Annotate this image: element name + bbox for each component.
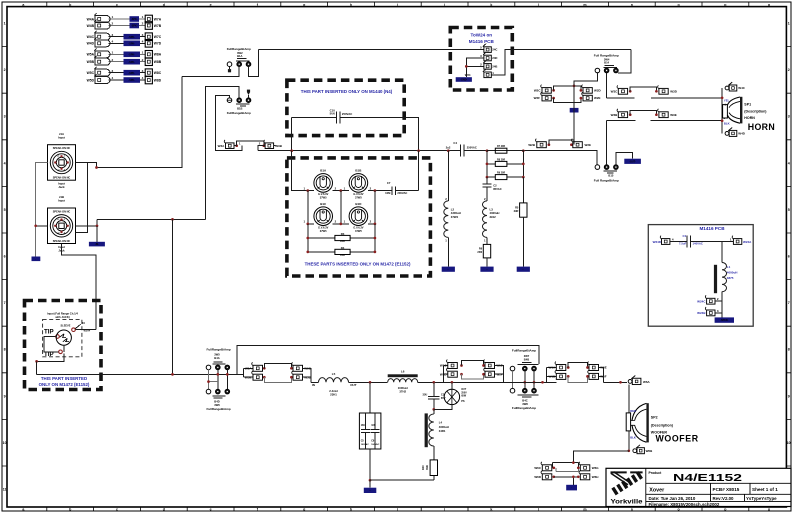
svg-text:W6D: W6D	[534, 475, 542, 479]
lamp B1A	[314, 174, 333, 193]
svg-text:HORN: HORN	[744, 116, 755, 120]
capacitor C1	[687, 236, 691, 248]
svg-text:ToW24 on: ToW24 on	[470, 33, 492, 38]
svg-text:2: 2	[142, 22, 144, 26]
svg-text:C1: C1	[682, 234, 686, 238]
svg-text:1: 1	[142, 15, 144, 19]
dashed box ToW24 on M1416 PCB	[450, 28, 512, 91]
svg-text:R8 20R: R8 20R	[497, 158, 505, 161]
switch S3 pin open	[595, 68, 600, 73]
svg-text:W4D: W4D	[738, 132, 746, 136]
svg-text:j: j	[443, 3, 445, 7]
capacitor C2 branch	[486, 177, 488, 184]
svg-text:l: l	[538, 3, 539, 7]
wire riser to jack line	[172, 219, 174, 374]
svg-text:c: c	[116, 3, 118, 7]
wire tip wiring	[44, 337, 59, 352]
svg-text:SP1: SP1	[744, 103, 751, 107]
svg-text:22R: 22R	[340, 254, 345, 257]
svg-text:16U: 16U	[361, 424, 366, 427]
svg-text:W6B: W6B	[646, 449, 654, 453]
junction W3B	[262, 144, 265, 147]
net label woofer gnd	[369, 480, 371, 488]
wire row link mid	[340, 191, 342, 224]
wire speakon2 left	[36, 225, 48, 227]
svg-text:M1416 PCB: M1416 PCB	[699, 226, 725, 231]
svg-text:R9 20R: R9 20R	[497, 172, 505, 175]
svg-text:200VAC: 200VAC	[397, 191, 407, 195]
svg-text:·SPK·: ·SPK·	[128, 53, 135, 56]
svg-text:7: 7	[788, 301, 790, 305]
svg-text:FullRangeBiAmp: FullRangeBiAmp	[227, 47, 251, 51]
wire speakon2 right	[76, 219, 98, 225]
wire S2 middle to left riser	[205, 86, 239, 219]
wire woofer main line	[37, 373, 244, 375]
svg-text:9: 9	[788, 394, 790, 398]
svg-text:q: q	[768, 508, 770, 512]
svg-text:W2C: W2C	[534, 89, 542, 93]
svg-text:M1416 PCB: M1416 PCB	[469, 39, 495, 44]
wire W1A bridge top	[568, 363, 587, 368]
inductor L6	[388, 379, 418, 383]
svg-text:4: 4	[142, 39, 144, 43]
wire resistor bank right	[522, 151, 524, 177]
svg-text:37W5: 37W5	[320, 196, 327, 200]
svg-text:W24B: W24B	[697, 311, 706, 315]
svg-text:W8B: W8B	[154, 60, 162, 64]
svg-text:L6: L6	[401, 369, 405, 373]
junctions W1C W1D	[460, 364, 463, 367]
net label W4A	[130, 16, 140, 22]
svg-text:W8D: W8D	[154, 78, 162, 82]
svg-text:34R1: 34R1	[439, 429, 446, 433]
svg-text:FullRangeBiAmp: FullRangeBiAmp	[512, 406, 536, 410]
wire long bus y49.6 left	[259, 49, 451, 51]
svg-text:3: 3	[142, 33, 144, 37]
svg-text:W3D: W3D	[670, 90, 678, 94]
svg-text:n: n	[631, 3, 633, 7]
svg-text:HORN: HORN	[748, 122, 776, 132]
jack sleeve pin	[72, 328, 76, 332]
connector W4C horn top	[725, 82, 737, 91]
wire long net y219.4	[97, 218, 205, 220]
svg-text:e: e	[210, 3, 212, 7]
svg-text:10: 10	[787, 441, 791, 445]
svg-text:1: 1	[142, 50, 144, 54]
svg-text:W6C: W6C	[534, 466, 542, 470]
wire S1 left leg	[182, 67, 239, 77]
connector W5D	[87, 74, 110, 83]
wire W4C-W7C	[109, 36, 146, 38]
svg-text:Product: Product	[649, 471, 663, 475]
net label W4C	[124, 34, 141, 40]
svg-text:Date: Tue Jan 26, 2010: Date: Tue Jan 26, 2010	[649, 496, 696, 501]
wire riser x574	[573, 81, 575, 140]
connector W8D	[145, 76, 162, 84]
capacitor C6	[374, 413, 376, 449]
resistor R3	[308, 224, 375, 252]
svg-text:4: 4	[112, 76, 114, 80]
wire woofer -	[628, 431, 630, 451]
svg-text:Jack: Jack	[58, 185, 65, 189]
svg-text:Input: Input	[58, 199, 65, 203]
junction W3D	[655, 90, 658, 93]
svg-text:YsTypeYsType: YsTypeYsType	[746, 496, 777, 501]
connector W7B	[145, 22, 162, 30]
svg-text:B1A: B1A	[320, 169, 327, 173]
inductor L1	[714, 265, 717, 293]
svg-text:W8C: W8C	[154, 71, 162, 75]
junction W3C	[629, 90, 632, 93]
net label speakon2	[96, 226, 98, 242]
wire rail W3B left	[607, 120, 636, 122]
inductor L4 core	[425, 413, 428, 447]
svg-text:n: n	[631, 508, 633, 512]
svg-text:R10: R10	[421, 465, 425, 470]
wire S3 open leg	[574, 73, 598, 140]
svg-text:W6G: W6G	[592, 466, 600, 470]
switch SC bottom circles	[510, 388, 515, 393]
wire W1C left pins	[443, 366, 445, 383]
svg-text:R5: R5	[515, 205, 519, 209]
wire S2 open pin to W3A	[216, 95, 230, 150]
svg-text:W3B: W3B	[611, 113, 619, 117]
capacitor C4	[461, 145, 465, 157]
wire W6 bypass top	[552, 463, 578, 468]
net label ToW24 gnd	[456, 77, 472, 82]
svg-text:·SPK·: ·SPK·	[128, 72, 135, 75]
svg-text:2: 2	[142, 58, 144, 62]
svg-text:24D: 24D	[492, 56, 497, 60]
connector W5B	[87, 56, 110, 65]
svg-text:37W5: 37W5	[355, 229, 362, 233]
svg-text:3875: 3875	[727, 276, 734, 280]
connector W8B	[145, 58, 162, 66]
svg-text:5U6: 5U6	[330, 112, 336, 116]
wire W5 left pins	[243, 368, 245, 377]
switch S3 pins closed	[604, 68, 609, 73]
svg-text:·SPK·: ·SPK·	[128, 42, 135, 45]
svg-text:2R2: 2R2	[477, 250, 482, 254]
wire W5D-W8D	[109, 79, 146, 81]
svg-text:··: ··	[486, 268, 488, 271]
wire C1 to W24A	[691, 241, 734, 243]
svg-text:·SPK·: ·SPK·	[131, 18, 138, 21]
svg-text:65W: 65W	[461, 395, 467, 398]
svg-text:W1D: W1D	[440, 372, 448, 376]
wire bulb row1 right	[368, 190, 392, 192]
cap bank box	[359, 413, 381, 449]
svg-text:OUT: OUT	[350, 383, 357, 387]
wire W3A rail left	[216, 146, 242, 151]
connector W3D	[658, 85, 669, 94]
connector W3E	[658, 109, 669, 118]
svg-text:16U: 16U	[371, 424, 376, 427]
wire W24 out	[491, 50, 631, 75]
svg-text:W24D: W24D	[653, 240, 662, 244]
wire gnd stub	[572, 477, 574, 485]
svg-text:Yorkville: Yorkville	[611, 498, 643, 505]
wire W24 left pins	[466, 58, 484, 77]
svg-text:3W7: 3W7	[524, 354, 530, 358]
svg-text:THESE PARTS INSERTED ONLY ON M: THESE PARTS INSERTED ONLY ON M1472 (E115…	[305, 261, 411, 266]
switch S2 top stub	[248, 95, 250, 98]
svg-text:·OUT·: ·OUT·	[629, 160, 636, 163]
connector W8C	[145, 69, 162, 77]
svg-text:39R: 39R	[425, 465, 429, 470]
wire rail W3E to horn	[650, 120, 722, 122]
wire W24D to C1	[670, 241, 687, 243]
jack tip pin	[56, 335, 60, 339]
switch S2 pin open	[227, 98, 232, 103]
svg-text:B1D: B1D	[355, 202, 362, 206]
svg-text:TIP: TIP	[44, 328, 54, 335]
svg-text:W6H: W6H	[592, 475, 599, 479]
switch S1 pins closed	[237, 62, 242, 67]
svg-text:3: 3	[112, 69, 114, 73]
wire S4 right to net label	[616, 153, 633, 165]
wire bus corner into S3	[618, 50, 631, 73]
wire bypass riser	[237, 346, 539, 375]
svg-text:5: 5	[788, 208, 790, 212]
svg-text:6: 6	[4, 255, 6, 259]
connector W4D	[87, 37, 110, 46]
svg-text:2: 2	[112, 22, 114, 26]
wire L6 out	[418, 381, 504, 383]
connector W6B	[633, 445, 645, 454]
svg-text:BLK: BLK	[630, 435, 636, 439]
svg-text:W4B: W4B	[87, 24, 95, 28]
switch S4 pin open	[595, 165, 600, 170]
wire W4D-W7D	[109, 42, 146, 44]
wire speakon1 left to gnd rail	[36, 163, 48, 257]
wire resistor bank left	[486, 151, 488, 177]
svg-text:W3E: W3E	[670, 113, 677, 117]
connector W7D	[145, 40, 162, 48]
wire W3B bridge	[630, 110, 656, 114]
net label W2 mid	[573, 103, 575, 108]
junctions W5A W5B	[263, 367, 266, 370]
svg-text:W1A: W1A	[549, 366, 557, 370]
svg-text:1: 1	[4, 22, 6, 26]
svg-text:W4D: W4D	[87, 42, 95, 46]
wire bulb row1 left	[292, 151, 314, 191]
svg-text:24C: 24C	[492, 48, 497, 52]
wire bulb node right riser	[418, 151, 420, 191]
junction W2E	[570, 143, 573, 146]
wire W3A bridge	[237, 141, 264, 146]
speaker SP1 horn symbol	[723, 97, 743, 124]
wire bulb row2 right	[368, 223, 375, 225]
svg-text:W3C: W3C	[611, 90, 619, 94]
resistor R10	[433, 446, 435, 460]
svg-text:W24A: W24A	[743, 240, 752, 244]
switch S4 pins closed	[604, 165, 609, 170]
junction W3A	[235, 144, 238, 147]
wire W6 bottom bridge	[554, 476, 579, 478]
svg-text:W4C: W4C	[87, 35, 95, 39]
svg-text:W5A: W5A	[87, 53, 95, 57]
wire lone jog	[209, 381, 218, 383]
net label gnd R5	[517, 267, 530, 272]
switch SC top bar	[522, 362, 531, 364]
connector W5C	[292, 362, 303, 371]
lamp B1C	[314, 207, 333, 226]
svg-text:37H2: 37H2	[399, 390, 406, 394]
wire W5A-W8A	[109, 53, 146, 55]
svg-text:·SPK·: ·SPK·	[128, 36, 135, 39]
svg-text:W7B: W7B	[154, 24, 162, 28]
switch SC bottom bar	[518, 394, 539, 396]
wire sleeve out	[75, 329, 96, 331]
wire C10 right leg	[418, 118, 420, 151]
svg-text:J3: J3	[82, 321, 86, 325]
wire to cap bank	[369, 382, 371, 413]
svg-text:250VAC: 250VAC	[342, 112, 352, 116]
wire W1 bridge top	[462, 361, 484, 366]
svg-text:d: d	[163, 508, 165, 512]
wire rail W3D to horn	[651, 97, 722, 99]
svg-text:7: 7	[4, 301, 6, 305]
switch SB top bar	[213, 361, 222, 363]
wire C10 left leg	[291, 118, 293, 151]
svg-text:4000uH: 4000uH	[727, 271, 738, 275]
switch SB bottom bar	[213, 395, 226, 397]
svg-text:10: 10	[3, 441, 7, 445]
svg-text:W8A: W8A	[154, 53, 162, 57]
svg-text:W24: W24	[465, 73, 471, 77]
svg-text:SPEAK-ON NC: SPEAK-ON NC	[53, 147, 71, 150]
wire W4B-W7B	[109, 25, 146, 27]
svg-text:Filename: X8015V200sch.sch2002: Filename: X8015V200sch.sch2002	[649, 502, 720, 507]
svg-text:24B: 24B	[492, 65, 497, 69]
wire W2 bypass top	[554, 86, 581, 91]
svg-text:B4B: B4B	[524, 357, 529, 361]
svg-text:SLEEVE: SLEEVE	[61, 325, 71, 328]
wire S3 mid leg	[606, 73, 608, 98]
svg-text:IN: IN	[312, 383, 315, 387]
connector W1F	[484, 368, 495, 377]
title block frame	[606, 468, 791, 506]
svg-text:THIS PART INSERTED ONLY ON M14: THIS PART INSERTED ONLY ON M1440 (N4)	[301, 89, 393, 94]
svg-text:m: m	[583, 3, 586, 7]
svg-text:4: 4	[4, 161, 6, 165]
connector W4C	[87, 31, 110, 40]
wire W1 right jog	[495, 366, 504, 383]
junctions W1A W1B	[567, 366, 570, 369]
wire W5C-W8C	[109, 72, 146, 74]
junctions W6C W6D	[552, 466, 555, 469]
connector W1E	[484, 360, 495, 369]
box M1416 PCB	[648, 225, 753, 327]
svg-text:Input (Full Range Ch.1/4: Input (Full Range Ch.1/4	[47, 311, 78, 315]
speakON jack J1A	[48, 145, 76, 181]
svg-text:·SPK·: ·SPK·	[128, 61, 135, 64]
wire to woofer	[555, 381, 557, 383]
wire speakon1 right	[76, 77, 183, 168]
inductor L4	[433, 409, 435, 414]
svg-text:1: 1	[112, 15, 114, 19]
connector W7C	[145, 33, 162, 41]
svg-text:3912: 3912	[490, 215, 497, 219]
svg-text:3: 3	[142, 69, 144, 73]
svg-text:k: k	[490, 508, 492, 512]
switch S1 pin open	[227, 62, 232, 67]
net label bottom gnd	[566, 485, 577, 491]
svg-text:c: c	[116, 508, 118, 512]
wire W1A bridge bottom	[568, 376, 587, 382]
wire speakon2 bottom to J3	[62, 244, 96, 330]
wire bulb row2 mid	[333, 223, 349, 225]
wire W5B-W8B	[109, 61, 146, 63]
resistor R8	[487, 163, 523, 165]
junctions W2C W2F	[552, 89, 555, 92]
svg-text:WOOFER: WOOFER	[656, 434, 699, 444]
svg-text:W5D: W5D	[87, 78, 95, 82]
wire W2 bypass bottom	[554, 98, 581, 103]
svg-text:B1A: B1A	[237, 54, 242, 58]
svg-text:2u2: 2u2	[446, 145, 451, 149]
svg-text:R4: R4	[341, 246, 345, 250]
svg-text:4: 4	[142, 76, 144, 80]
wire L5 to L6	[349, 381, 388, 383]
svg-text:B4A: B4A	[214, 356, 219, 360]
wire to L1	[721, 242, 723, 263]
net label gnd L2	[442, 267, 455, 272]
svg-text:k: k	[490, 3, 492, 7]
svg-text:R3: R3	[341, 232, 345, 236]
svg-text:W5B: W5B	[245, 375, 253, 379]
svg-text:SPEAK-ON NC: SPEAK-ON NC	[53, 177, 71, 180]
lamp B1D	[349, 207, 368, 226]
svg-text:23H1: 23H1	[330, 393, 337, 397]
svg-text:C7: C7	[387, 181, 391, 185]
svg-text:(Description): (Description)	[744, 109, 767, 113]
connector W6H	[579, 471, 590, 480]
svg-text:W2F: W2F	[534, 96, 541, 100]
inductor L6 core	[388, 374, 418, 377]
svg-text:Full RangeBiAmp: Full RangeBiAmp	[594, 178, 619, 182]
svg-text:7.5uF: 7.5uF	[679, 241, 687, 245]
svg-text:100VAC: 100VAC	[371, 443, 380, 446]
capacitor C5	[365, 413, 367, 449]
dashed box THIS PART INSERTED ONLY ON M1472	[25, 301, 102, 390]
svg-text:250VAC: 250VAC	[467, 145, 477, 149]
switch SC columns	[512, 371, 514, 389]
svg-text:W5A: W5A	[245, 367, 253, 371]
switch S2 bar	[236, 103, 249, 105]
wire row link right	[374, 191, 376, 224]
svg-text:B14: B14	[604, 61, 609, 65]
svg-text:W7D: W7D	[154, 42, 162, 46]
svg-text:W6A: W6A	[643, 380, 651, 384]
svg-text:PCB# X8015: PCB# X8015	[713, 487, 740, 492]
svg-text:i: i	[397, 508, 398, 512]
svg-text:g: g	[303, 508, 305, 512]
switch S2 pins closed	[237, 98, 242, 103]
svg-text:(Description): (Description)	[651, 423, 674, 427]
svg-text:RED: RED	[630, 409, 636, 413]
resistor R4	[308, 251, 375, 253]
connector W6A	[628, 376, 641, 385]
svg-text:37W4: 37W4	[451, 215, 459, 219]
connector W5A	[87, 48, 110, 57]
svg-text:R6: R6	[479, 246, 483, 250]
wire woofer +	[628, 384, 630, 413]
resistor R9	[487, 176, 523, 178]
wire gnd return	[370, 479, 434, 481]
svg-text:4: 4	[788, 161, 790, 165]
